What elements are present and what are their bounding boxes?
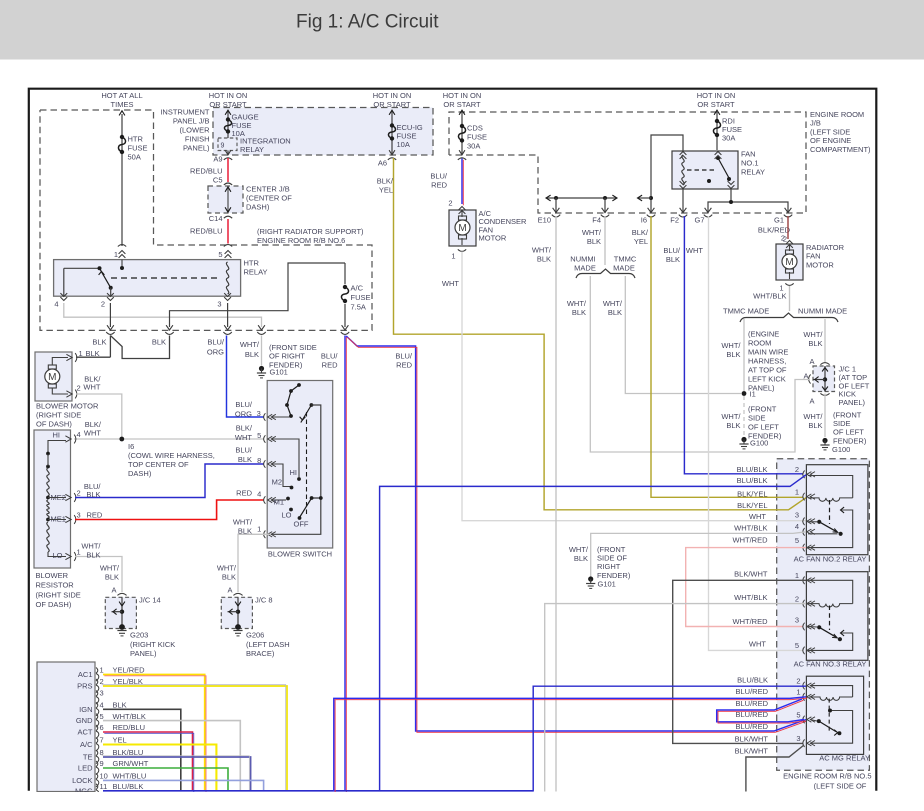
amplifier pin 9 GRN/WHT	[96, 761, 98, 767]
connector WHT/BLK	[258, 325, 265, 330]
svg-text:1: 1	[100, 666, 104, 675]
svg-text:LED: LED	[78, 764, 93, 773]
svg-text:G206: G206	[246, 631, 264, 640]
svg-text:INSTRUMENT: INSTRUMENT	[160, 108, 210, 117]
blower switch LO contact	[289, 508, 293, 512]
svg-text:(RIGHT SIDE: (RIGHT SIDE	[36, 590, 81, 599]
svg-text:G101: G101	[270, 368, 288, 377]
blower switch upper contact chain	[271, 416, 291, 418]
svg-text:TIMES: TIMES	[111, 100, 134, 109]
wire NUMMI branch of F4 to J/C1 left pin	[590, 276, 810, 452]
svg-text:A: A	[111, 586, 116, 595]
svg-text:BLU/: BLU/	[207, 338, 225, 347]
amplifier pin 3	[96, 691, 98, 697]
wire BLU/BLK AC MG pin2 net	[533, 686, 806, 791]
svg-text:WHT: WHT	[442, 279, 459, 288]
svg-text:5: 5	[100, 712, 104, 721]
wire E10 WHT/BLK long drop	[555, 216, 557, 792]
svg-text:BLU/: BLU/	[321, 352, 339, 361]
svg-text:6: 6	[100, 723, 104, 732]
A/C condenser fan motor	[449, 210, 476, 246]
svg-text:WHT: WHT	[83, 383, 100, 392]
A/C amplifier box	[37, 662, 95, 792]
amplifier pin 8 BLK/BLU	[96, 750, 98, 756]
blower switch upper wiper	[310, 403, 314, 407]
svg-text:BLU/: BLU/	[430, 172, 448, 181]
svg-text:BLK: BLK	[92, 338, 106, 347]
svg-text:FAN: FAN	[741, 150, 756, 159]
svg-text:J/C 8: J/C 8	[255, 596, 273, 605]
svg-text:F2: F2	[670, 216, 679, 225]
wire WHT/BLK relay3 pin2 long drop	[545, 604, 806, 792]
svg-text:BLU/: BLU/	[235, 400, 253, 409]
svg-text:3: 3	[795, 615, 799, 624]
svg-text:BLK: BLK	[726, 350, 740, 359]
svg-text:BLK: BLK	[113, 701, 127, 710]
amplifier pin 1 YEL/RED	[96, 668, 98, 674]
svg-text:BLK/WHT: BLK/WHT	[734, 570, 768, 579]
svg-text:MADE: MADE	[613, 264, 635, 273]
svg-text:M: M	[48, 372, 56, 383]
blower switch pins	[264, 413, 266, 421]
relay AC MG box	[806, 676, 863, 754]
svg-text:G203: G203	[130, 631, 148, 640]
svg-text:ENGINE ROOM R/B NO.6: ENGINE ROOM R/B NO.6	[257, 236, 345, 245]
wire BLU/BLK resistor ME2 to switch pin8	[75, 464, 264, 498]
wire WHT/BLK radiator pin1 to brace	[789, 286, 791, 311]
svg-text:5: 5	[795, 641, 799, 650]
wire dashed I1 to G100	[743, 396, 745, 436]
svg-text:BLK: BLK	[86, 490, 100, 499]
svg-text:MAIN WIRE: MAIN WIRE	[748, 347, 788, 356]
svg-text:BLK: BLK	[666, 255, 680, 264]
svg-text:G100: G100	[832, 445, 850, 454]
svg-text:A/C: A/C	[80, 740, 93, 749]
ground G101 second	[588, 576, 593, 581]
fuse HTR FUSE 50A	[120, 135, 124, 139]
svg-text:I6: I6	[128, 442, 134, 451]
svg-text:(COWL WIRE HARNESS,: (COWL WIRE HARNESS,	[128, 451, 215, 460]
svg-text:FINISH: FINISH	[185, 135, 210, 144]
svg-text:BLK: BLK	[726, 421, 740, 430]
svg-text:SIDE OF: SIDE OF	[597, 554, 627, 563]
svg-text:BLU/BLK: BLU/BLK	[113, 782, 144, 791]
connector A6	[389, 150, 395, 155]
amplifier pin 6 RED/BLU	[96, 725, 98, 731]
svg-text:BLK: BLK	[238, 527, 252, 536]
svg-text:HI: HI	[290, 468, 298, 477]
svg-text:HOT IN ON: HOT IN ON	[373, 91, 412, 100]
junction I1	[742, 391, 747, 396]
svg-text:M: M	[785, 257, 793, 268]
blower resistor	[34, 430, 71, 568]
svg-text:ORG: ORG	[235, 410, 252, 419]
HTR relay pin1 stub	[121, 260, 123, 266]
svg-text:BLK: BLK	[238, 455, 252, 464]
svg-text:PRS: PRS	[77, 682, 92, 691]
amplifier pin 11 BLU/BLK	[96, 784, 98, 790]
svg-text:WHT: WHT	[235, 433, 252, 442]
blower resistor element	[48, 441, 66, 453]
svg-text:RESISTOR: RESISTOR	[36, 581, 75, 590]
svg-text:BLU/: BLU/	[395, 352, 413, 361]
svg-text:10A: 10A	[397, 140, 410, 149]
svg-text:BLK/WHT: BLK/WHT	[735, 747, 769, 756]
svg-text:HOT IN ON: HOT IN ON	[697, 91, 736, 100]
svg-text:F4: F4	[592, 216, 601, 225]
svg-text:3: 3	[77, 511, 81, 520]
svg-text:5: 5	[795, 536, 799, 545]
svg-text:BLK/: BLK/	[377, 177, 394, 186]
svg-text:2: 2	[77, 489, 81, 498]
svg-text:BLU/BLK: BLU/BLK	[737, 476, 768, 485]
svg-text:10: 10	[100, 772, 108, 781]
svg-text:C5: C5	[213, 176, 223, 185]
wire RED resistor ME1 to switch pin4	[75, 500, 264, 520]
svg-text:LEFT KICK: LEFT KICK	[748, 374, 786, 383]
svg-text:2: 2	[795, 594, 799, 603]
svg-text:BLU/BLK: BLU/BLK	[737, 675, 768, 684]
wire J/C1 to G100 right	[824, 394, 826, 438]
svg-text:HOT IN ON: HOT IN ON	[209, 91, 248, 100]
svg-text:M: M	[458, 223, 466, 234]
condenser motor pin 1	[458, 249, 466, 251]
svg-text:LO: LO	[281, 511, 291, 520]
left dashed box + engine room R/B NO.6 boundary	[40, 110, 372, 330]
svg-text:BLK: BLK	[574, 554, 588, 563]
amplifier pin 7 YEL	[96, 738, 98, 744]
svg-text:RED/BLU: RED/BLU	[113, 723, 146, 732]
svg-text:WHT: WHT	[749, 640, 766, 649]
svg-text:I1: I1	[750, 390, 756, 399]
connector C5	[224, 183, 232, 185]
svg-text:RADIATOR: RADIATOR	[806, 243, 845, 252]
wire WHT/RED relay2 pin5 to relay3 pin3	[686, 548, 806, 627]
svg-text:1: 1	[795, 571, 799, 580]
svg-text:Fig 1: A/C Circuit: Fig 1: A/C Circuit	[296, 12, 439, 33]
svg-text:RED/BLU: RED/BLU	[190, 167, 223, 176]
wire WHT/BLK resistor LO to J/C 14	[75, 557, 122, 593]
blower motor	[35, 352, 72, 401]
fuse GAUGE FUSE 10A	[226, 117, 230, 121]
wire HTR pin3 to BLU/ORG connector	[227, 303, 229, 327]
svg-text:TOP CENTER OF: TOP CENTER OF	[128, 460, 189, 469]
svg-text:3: 3	[257, 409, 261, 418]
svg-text:WHT/: WHT/	[721, 341, 741, 350]
connector E10	[553, 208, 560, 213]
svg-text:8: 8	[257, 456, 261, 465]
svg-text:WHT/: WHT/	[721, 412, 741, 421]
svg-text:BLK: BLK	[608, 308, 622, 317]
wire BLU/BLK amp pin11 to AC fan no2 pin2	[380, 475, 806, 792]
svg-text:11: 11	[100, 782, 108, 791]
wire E10 drop	[555, 198, 557, 213]
svg-text:BLOWER: BLOWER	[36, 571, 69, 580]
svg-text:YEL: YEL	[634, 237, 648, 246]
svg-text:G7: G7	[694, 216, 704, 225]
svg-text:SIDE: SIDE	[748, 413, 766, 422]
svg-text:AC MG RELAY: AC MG RELAY	[819, 753, 870, 762]
svg-text:WHT: WHT	[749, 512, 766, 521]
svg-text:IGN: IGN	[79, 705, 92, 714]
blower switch lower wiper	[310, 496, 314, 500]
svg-text:HARNESS,: HARNESS,	[748, 356, 786, 365]
svg-text:3: 3	[795, 510, 799, 519]
svg-text:(LEFT SIDE OF: (LEFT SIDE OF	[814, 781, 867, 790]
svg-text:OF ENGINE: OF ENGINE	[810, 136, 851, 145]
svg-text:YEL/RED: YEL/RED	[113, 666, 146, 675]
svg-text:AC FAN NO.2 RELAY: AC FAN NO.2 RELAY	[794, 555, 867, 564]
svg-text:WHT/: WHT/	[532, 246, 552, 255]
svg-text:LO: LO	[53, 551, 63, 560]
svg-text:C14: C14	[209, 214, 223, 223]
svg-text:30A: 30A	[722, 134, 735, 143]
AC FAN NO.2 pins	[803, 471, 805, 479]
svg-text:3: 3	[100, 689, 104, 698]
svg-text:BLK/WHT: BLK/WHT	[735, 734, 769, 743]
wire BLU/RED A/C fuse branch down	[344, 336, 346, 792]
svg-text:WHT: WHT	[84, 429, 101, 438]
connector BLK 1	[107, 325, 114, 330]
svg-text:HOT AT ALL: HOT AT ALL	[101, 91, 142, 100]
AC MG pins	[803, 682, 805, 690]
blower switch M2 contact	[271, 464, 290, 487]
radiator fan motor	[776, 244, 803, 280]
wire HTR pin4 to WHT/BLK connector	[64, 303, 262, 327]
relay HTR box	[54, 260, 241, 297]
svg-text:1: 1	[796, 688, 800, 697]
svg-text:WHT/BLU: WHT/BLU	[113, 772, 147, 781]
svg-text:PANEL): PANEL)	[183, 144, 210, 153]
svg-text:WHT/: WHT/	[803, 330, 823, 339]
connector F4	[602, 208, 609, 213]
AC MG internals	[810, 686, 853, 697]
svg-text:G1: G1	[774, 216, 784, 225]
svg-text:30A: 30A	[467, 142, 480, 151]
svg-text:AC FAN NO.3 RELAY: AC FAN NO.3 RELAY	[794, 660, 867, 669]
svg-text:PANEL): PANEL)	[130, 649, 157, 658]
svg-text:WHT/: WHT/	[569, 545, 589, 554]
fuse CDS FUSE 30A	[460, 124, 464, 128]
engine room R/B NO.5 dashed box	[777, 459, 870, 770]
amplifier pin 4 BLK	[96, 702, 98, 708]
svg-text:YEL: YEL	[379, 186, 393, 195]
HTR relay bottom pins	[60, 297, 67, 300]
svg-text:WHT: WHT	[686, 246, 703, 255]
diagram frame	[29, 89, 877, 791]
svg-text:BLU/RED: BLU/RED	[735, 699, 768, 708]
wire BLU/RED CDS to condenser fan motor	[461, 159, 463, 205]
svg-text:M1: M1	[274, 498, 284, 507]
svg-text:PANEL): PANEL)	[839, 398, 866, 407]
HTR fuse feed wire	[121, 114, 123, 246]
svg-text:NUMMI: NUMMI	[570, 255, 595, 264]
svg-text:(LEFT DASH: (LEFT DASH	[246, 640, 290, 649]
HTR relay dashed link	[111, 277, 221, 279]
svg-text:BLK: BLK	[808, 421, 822, 430]
svg-text:M2: M2	[272, 478, 282, 487]
svg-text:OFF: OFF	[294, 520, 309, 529]
svg-text:2: 2	[448, 199, 452, 208]
wire BLK/WHT relay3 pin1 to AC MG pin3	[673, 580, 806, 743]
svg-text:BLU/RED: BLU/RED	[735, 687, 768, 696]
svg-text:BLU/BLK: BLU/BLK	[737, 465, 768, 474]
wire blower motor pin1	[76, 356, 110, 358]
svg-text:RED/BLU: RED/BLU	[190, 227, 223, 236]
svg-text:DASH): DASH)	[128, 469, 152, 478]
wire FAN relay coil top to I6 connector	[651, 135, 683, 213]
wire WHT/BLK relay2 pin4 to ground G101 second	[591, 532, 806, 577]
svg-text:(LEFT SIDE: (LEFT SIDE	[810, 127, 850, 136]
svg-text:MOTOR: MOTOR	[806, 260, 834, 269]
junction box J/C 14 with ground G203	[117, 593, 126, 595]
svg-text:4: 4	[795, 522, 799, 531]
svg-text:OR START: OR START	[697, 100, 735, 109]
wire A/C fuse link to BLK connector 2	[170, 263, 346, 327]
wire BLK/YEL A6 down-right to AC fan no2 relay pin 1	[394, 158, 807, 510]
svg-text:BLK: BLK	[152, 338, 166, 347]
wire TMMC branch of F4 to I1	[625, 276, 741, 394]
svg-text:OR START: OR START	[373, 100, 411, 109]
svg-text:5: 5	[218, 250, 222, 259]
svg-text:CENTER J/B: CENTER J/B	[246, 185, 290, 194]
svg-text:AT TOP OF: AT TOP OF	[748, 365, 787, 374]
relay AC FAN NO.2 box	[806, 465, 868, 555]
svg-text:BLK: BLK	[245, 350, 259, 359]
amplifier pin 5 WHT/BLK	[96, 714, 98, 720]
svg-text:WHT/: WHT/	[100, 564, 120, 573]
svg-text:WHT/RED: WHT/RED	[733, 617, 769, 626]
ground G100 right	[822, 438, 827, 443]
svg-text:1: 1	[795, 487, 799, 496]
AC FAN NO.2 internals	[808, 476, 853, 498]
svg-text:(FRONT: (FRONT	[833, 410, 862, 419]
svg-text:(CENTER OF: (CENTER OF	[246, 194, 292, 203]
svg-text:BLK: BLK	[572, 308, 586, 317]
fuse RDI FUSE 30A	[715, 119, 719, 123]
wire BLK/RED G1 to radiator fan	[787, 216, 789, 239]
svg-text:BLK: BLK	[105, 573, 119, 582]
svg-text:(RIGHT SIDE: (RIGHT SIDE	[36, 411, 81, 420]
FAN NO.1 relay coil	[682, 155, 684, 185]
svg-text:9: 9	[100, 759, 104, 768]
svg-text:J/C 14: J/C 14	[139, 596, 161, 605]
svg-text:RELAY: RELAY	[741, 168, 765, 177]
svg-text:4: 4	[77, 430, 81, 439]
svg-text:DASH): DASH)	[246, 203, 270, 212]
HTR relay switch arm	[64, 267, 100, 269]
svg-text:MADE: MADE	[574, 264, 596, 273]
svg-text:CDS: CDS	[467, 124, 483, 133]
wire BLK/WHT bus resistor pin4 to switch pin5	[74, 438, 264, 440]
svg-text:WHT/BLK: WHT/BLK	[734, 524, 767, 533]
svg-text:A: A	[809, 357, 814, 366]
svg-text:ENGINE ROOM: ENGINE ROOM	[810, 110, 864, 119]
junction box J/C 1	[813, 366, 835, 392]
relay FAN NO.1 box	[672, 151, 738, 189]
svg-text:(LOWER: (LOWER	[180, 126, 211, 135]
wire FAN relay contact bottom to G7 G1	[708, 189, 731, 213]
svg-text:3: 3	[796, 734, 800, 743]
header bar	[0, 0, 924, 60]
wire F2 BLU/BLK to AC fan no2 relay pin2	[684, 216, 803, 474]
svg-text:GRN/WHT: GRN/WHT	[113, 759, 149, 768]
connector I6	[648, 208, 655, 213]
svg-text:RED: RED	[236, 489, 252, 498]
svg-text:WHT/BLK: WHT/BLK	[113, 712, 146, 721]
bus arrows E10 F4	[547, 197, 617, 199]
svg-text:COMPARTMENT): COMPARTMENT)	[810, 145, 871, 154]
svg-text:BRACE): BRACE)	[246, 649, 275, 658]
brace NUMMI/TMMC under F4	[576, 269, 635, 278]
wire HTR pin2 to BLK connector 1	[109, 303, 111, 327]
svg-text:ENGINE ROOM R/B NO.5: ENGINE ROOM R/B NO.5	[783, 771, 871, 780]
svg-text:OR START: OR START	[443, 100, 481, 109]
svg-text:5: 5	[257, 431, 261, 440]
svg-text:1: 1	[77, 548, 81, 557]
svg-text:WHT/: WHT/	[81, 542, 101, 551]
svg-text:BLK: BLK	[808, 339, 822, 348]
blower switch right rail	[271, 405, 321, 534]
svg-text:G100: G100	[750, 438, 768, 447]
svg-text:G101: G101	[598, 579, 616, 588]
svg-text:OR START: OR START	[209, 100, 247, 109]
connector A9	[225, 150, 231, 155]
svg-text:WHT/: WHT/	[240, 340, 260, 349]
FAN NO.1 relay contact	[716, 156, 720, 160]
wire RED/BLU A9 to C5	[227, 158, 229, 182]
svg-text:2: 2	[101, 300, 105, 309]
svg-text:MOTOR: MOTOR	[479, 234, 507, 243]
connector G7	[705, 208, 712, 213]
svg-text:BLK/: BLK/	[632, 228, 649, 237]
svg-text:LOCK: LOCK	[72, 776, 92, 785]
svg-text:FAN: FAN	[806, 252, 821, 261]
svg-text:WHT/RED: WHT/RED	[733, 535, 769, 544]
wire F4 WHT/BLK to brace	[604, 216, 606, 265]
svg-text:2: 2	[796, 677, 800, 686]
ground G101 first	[259, 366, 264, 371]
svg-text:50A: 50A	[128, 153, 141, 162]
wire BLU/RED jumper pin1 to pin5	[717, 699, 804, 722]
HTR relay coil	[226, 262, 228, 294]
brace TMMC/NUMMI under radiator fan	[740, 313, 838, 322]
engine room J/B dashed boundary (top right)	[449, 112, 806, 213]
svg-text:WHT/BLK: WHT/BLK	[734, 593, 767, 602]
svg-text:RIGHT: RIGHT	[597, 562, 621, 571]
svg-text:PANEL J/B: PANEL J/B	[173, 117, 210, 126]
wire inside center J/B	[227, 188, 229, 212]
svg-text:BLOWER SWITCH: BLOWER SWITCH	[268, 550, 332, 559]
svg-text:2: 2	[77, 384, 81, 393]
svg-text:FUSE: FUSE	[128, 144, 148, 153]
svg-text:WHT/: WHT/	[217, 564, 237, 573]
svg-text:1: 1	[257, 525, 261, 534]
svg-text:OF RIGHT: OF RIGHT	[269, 352, 305, 361]
blower switch box	[267, 381, 333, 549]
svg-text:HTR: HTR	[244, 259, 260, 268]
svg-text:HTR: HTR	[128, 135, 144, 144]
svg-text:ME1: ME1	[51, 514, 66, 523]
svg-text:BLU/: BLU/	[235, 446, 253, 455]
radiator motor pin 1	[785, 283, 793, 285]
center J/B dashed box	[208, 186, 243, 213]
svg-text:A: A	[809, 397, 814, 406]
svg-text:A9: A9	[213, 155, 222, 164]
instrument panel J/B dashed box	[213, 108, 433, 156]
svg-text:A/C: A/C	[351, 284, 364, 293]
svg-text:NUMMI MADE: NUMMI MADE	[798, 306, 847, 315]
